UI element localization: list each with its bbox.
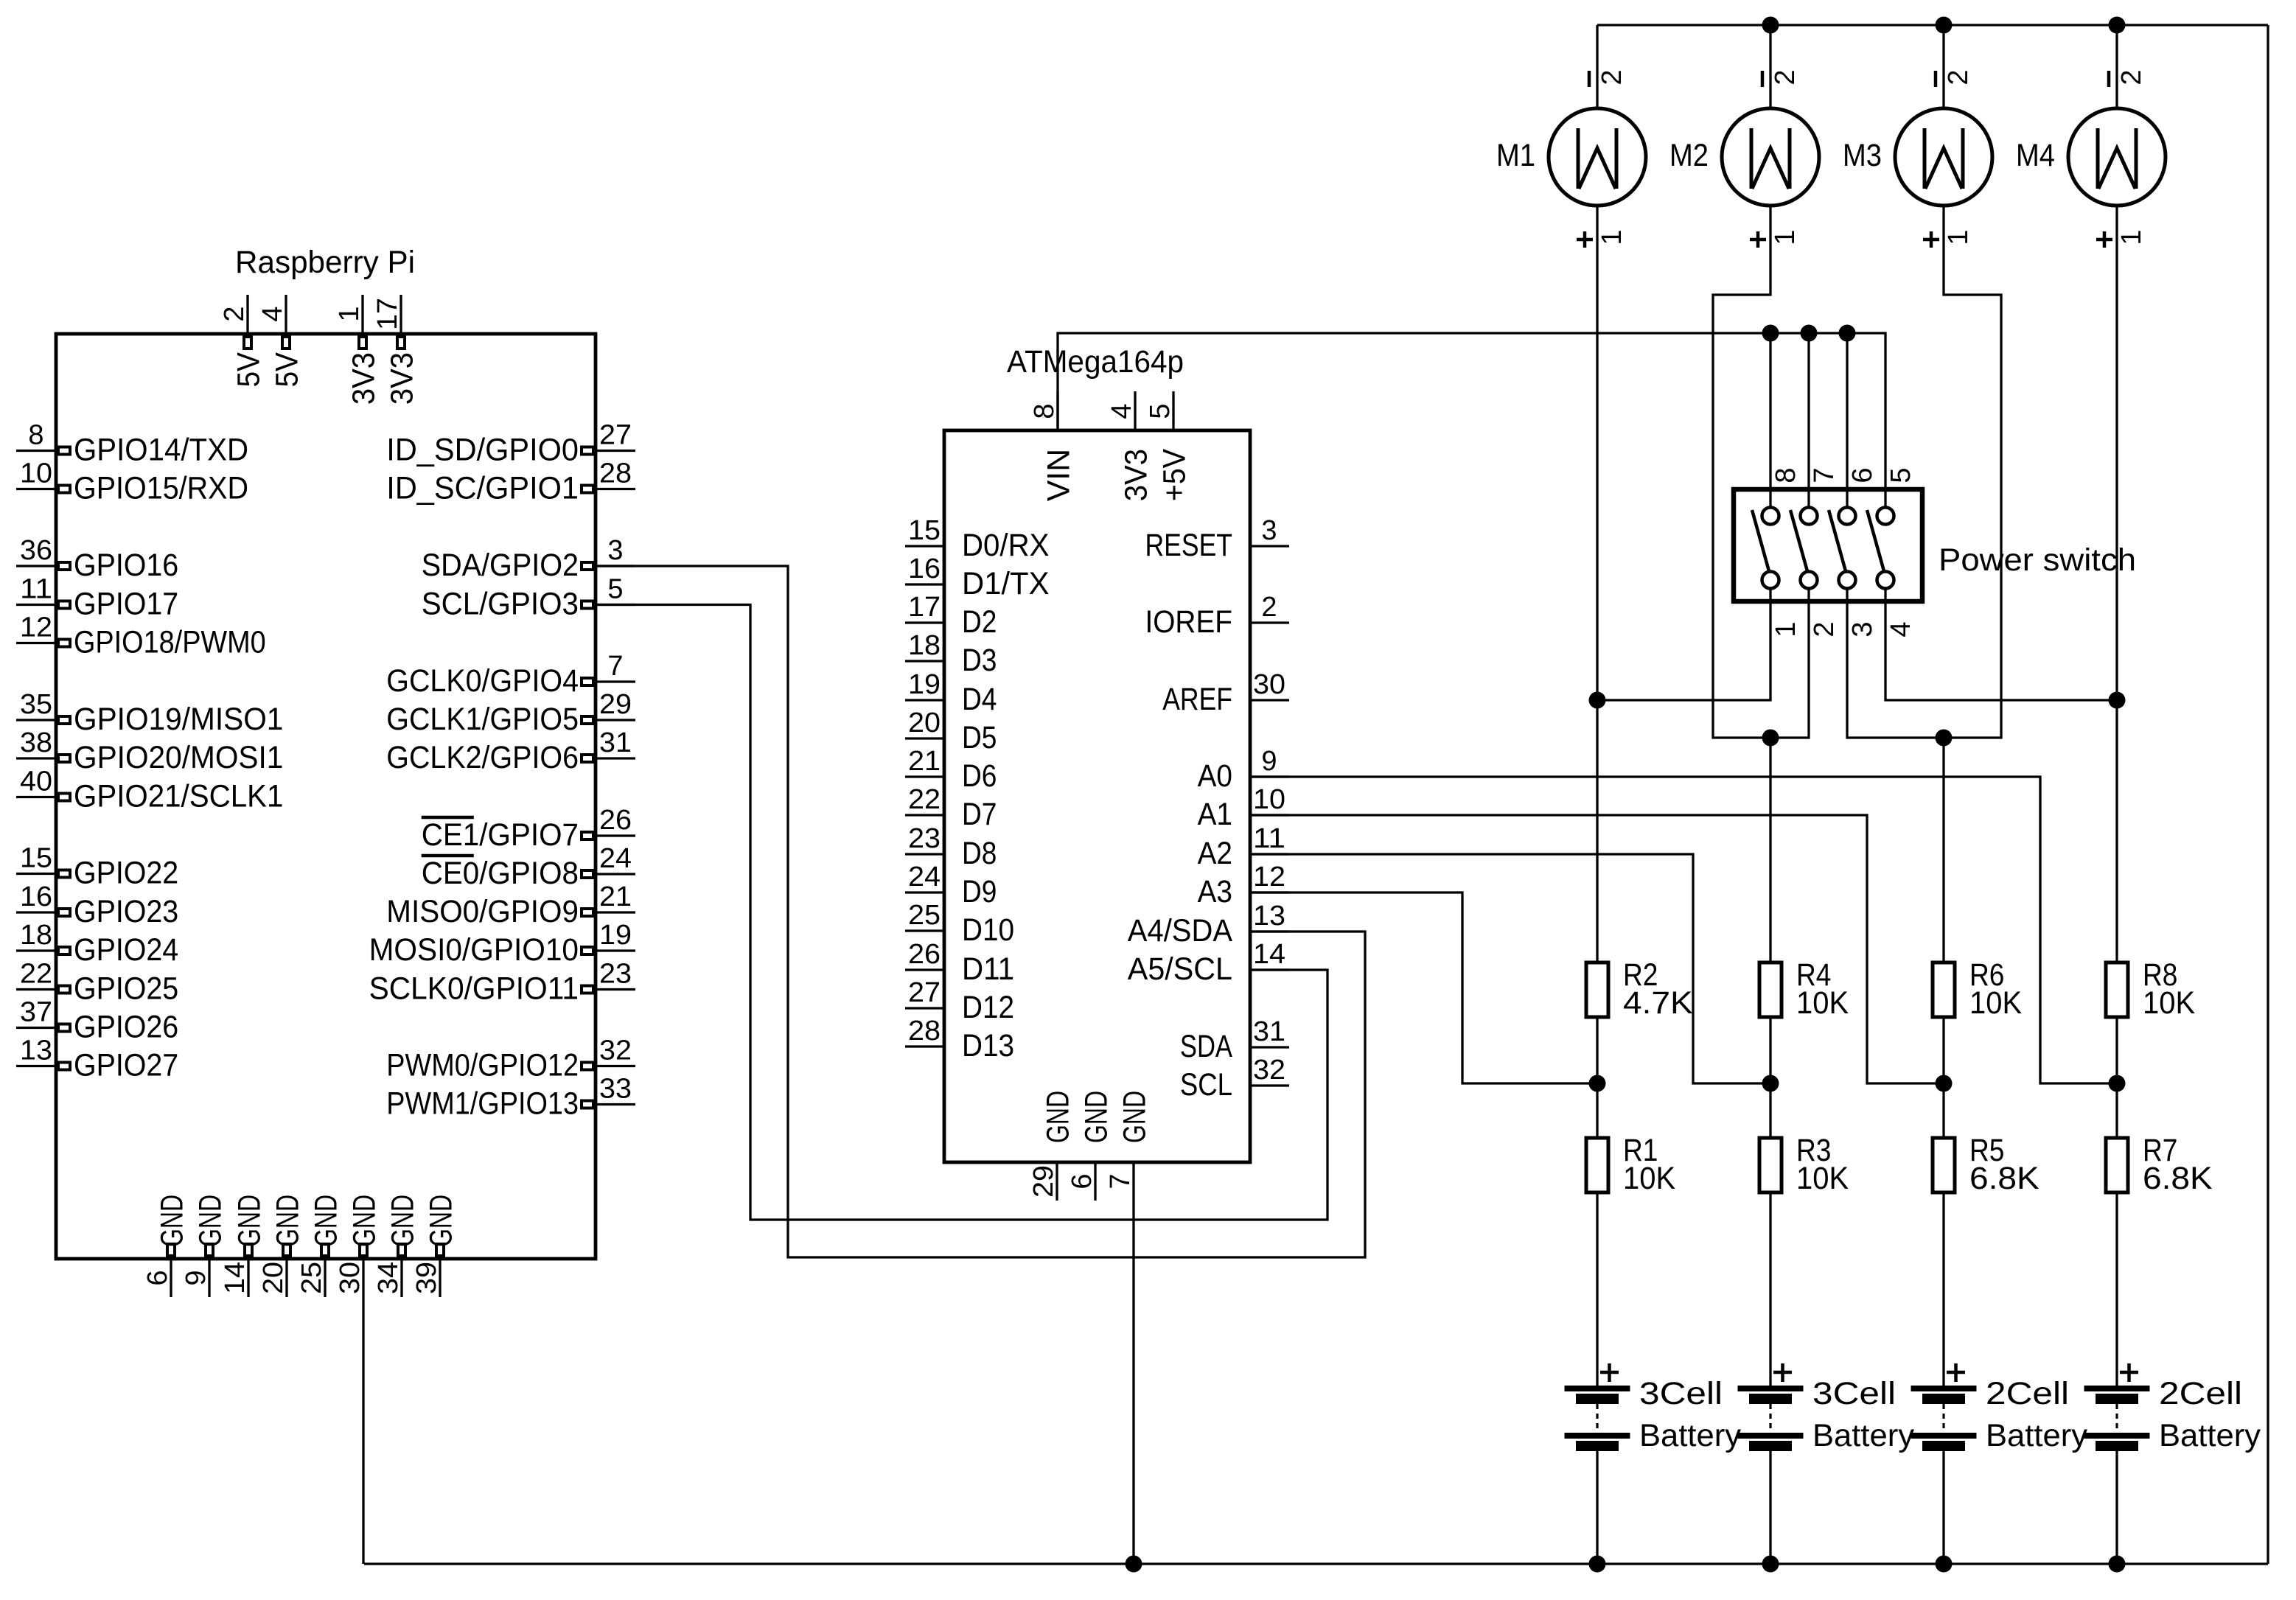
J1 pin 22 GPIO25: [16, 959, 178, 1007]
svg-text:M2: M2: [1669, 138, 1709, 173]
svg-text:D1/TX: D1/TX: [962, 566, 1050, 601]
svg-text:26: 26: [599, 805, 632, 836]
svg-text:Battery: Battery: [1986, 1418, 2087, 1453]
SW1 switch unit 2 (pins 2/7): [1790, 451, 1840, 640]
svg-text:19: 19: [908, 669, 941, 700]
U1 pin 18 D3: [905, 630, 997, 678]
svg-text:RESET: RESET: [1145, 528, 1233, 563]
svg-text:6: 6: [1847, 467, 1878, 483]
J1 pin 35 GPIO19/MISO1: [16, 689, 283, 737]
svg-text:M4: M4: [2016, 138, 2055, 173]
svg-text:D2: D2: [962, 604, 997, 640]
J1 pin 2 5V: [219, 295, 267, 387]
J1 pin 29 GCLK1/GPIO5: [386, 689, 635, 737]
svg-text:MISO0/GPIO9: MISO0/GPIO9: [386, 894, 579, 929]
svg-text:18: 18: [908, 630, 941, 661]
svg-text:3: 3: [1261, 515, 1277, 546]
ATMega164p U1: [905, 344, 1289, 1201]
junction at 2637,1001: [1936, 730, 1953, 747]
wire divider column: [1942, 1017, 1944, 1138]
svg-text:2: 2: [1809, 621, 1840, 637]
wire A2 to R4/R3 divider: [1250, 854, 1770, 1083]
svg-text:4.7K: 4.7K: [1623, 985, 1693, 1021]
svg-text:Raspberry Pi: Raspberry Pi: [235, 245, 415, 280]
svg-text:24: 24: [599, 843, 632, 874]
svg-text:MOSI0/GPIO10: MOSI0/GPIO10: [369, 932, 579, 968]
svg-text:ID_SC/GPIO1: ID_SC/GPIO1: [386, 471, 579, 506]
U1 pin 26 D11: [905, 939, 1014, 987]
svg-text:A2: A2: [1198, 836, 1232, 871]
resistor R6 10K: [1933, 957, 2022, 1021]
svg-text:M1: M1: [1496, 138, 1535, 173]
svg-text:12: 12: [1253, 862, 1285, 892]
J1 pin 9 GND: [181, 1195, 228, 1297]
wire junction to R4: [1769, 738, 1771, 963]
svg-text:D3: D3: [962, 643, 997, 678]
svg-text:SCL/GPIO3: SCL/GPIO3: [422, 587, 579, 622]
svg-text:SCL: SCL: [1180, 1067, 1232, 1103]
svg-text:38: 38: [20, 727, 52, 758]
svg-text:31: 31: [1253, 1016, 1285, 1047]
resistor R7 6.8K: [2106, 1133, 2213, 1196]
svg-text:GND: GND: [193, 1195, 228, 1247]
wire switch pin 2 to R4 junction: [1770, 640, 1809, 738]
svg-text:3: 3: [607, 535, 623, 566]
svg-text:8: 8: [28, 420, 43, 451]
J1 pin 11 GPIO17: [16, 574, 178, 622]
U1 body: [944, 430, 1250, 1162]
svg-text:5: 5: [1885, 467, 1916, 483]
svg-text:2: 2: [219, 306, 250, 321]
svg-text:D11: D11: [962, 951, 1014, 987]
svg-text:AREF: AREF: [1162, 682, 1232, 717]
battery BT3 2Cell: [1911, 1363, 2088, 1453]
svg-text:D0/RX: D0/RX: [962, 528, 1050, 563]
wire SCL (RPi GPIO3 to ATMega A5): [596, 605, 1327, 1220]
svg-text:31: 31: [599, 727, 632, 758]
wire battery to ground bus: [1769, 1451, 1771, 1564]
svg-text:1: 1: [334, 306, 365, 321]
wire right side vertical (motor - return): [2267, 25, 2269, 1564]
J1 pin 16 GPIO23: [16, 881, 178, 929]
U1 pin 2 IOREF: [1145, 592, 1290, 640]
svg-text:GPIO27: GPIO27: [74, 1048, 178, 1083]
U1 pin 10 A1: [1198, 784, 1289, 832]
svg-text:14: 14: [1253, 939, 1285, 970]
J1 pin 31 GCLK2/GPIO6: [386, 727, 635, 775]
svg-text:GPIO15/RXD: GPIO15/RXD: [74, 471, 248, 506]
svg-text:37: 37: [20, 997, 52, 1028]
svg-text:D5: D5: [962, 720, 997, 755]
motor M4: [2016, 69, 2166, 248]
svg-text:GCLK1/GPIO5: GCLK1/GPIO5: [386, 702, 579, 737]
svg-text:ATMega164p: ATMega164p: [1007, 344, 1184, 380]
svg-text:25: 25: [296, 1262, 327, 1294]
J1 pin 38 GPIO20/MOSI1: [16, 727, 283, 775]
U1 pin 17 D2: [905, 592, 997, 640]
junction at 2637,34: [1936, 17, 1953, 34]
wire switch top pin drop: [1769, 333, 1771, 451]
svg-text:5: 5: [1145, 403, 1176, 419]
J1 pin 18 GPIO24: [16, 920, 178, 968]
svg-text:M3: M3: [1843, 138, 1882, 173]
svg-text:10K: 10K: [2143, 985, 2195, 1021]
J1 pin 14 GND: [220, 1195, 268, 1297]
wire M2 + jog to junction: [1713, 206, 1770, 738]
U1 pin 14 A5/SCL: [1128, 939, 1289, 987]
wire ATMega GND (pin 7) to ground bus: [1132, 1201, 1134, 1564]
svg-text:29: 29: [599, 689, 632, 720]
svg-text:A1: A1: [1198, 797, 1232, 832]
svg-text:6.8K: 6.8K: [2143, 1161, 2213, 1196]
wire M1 + column to R2: [1596, 206, 1598, 963]
wire ATMega VIN to switch pins 8/7/6/5: [1058, 333, 1885, 451]
battery BT2 3Cell: [1738, 1363, 1915, 1453]
wire lower resistor to battery: [1769, 1192, 1771, 1386]
U1 pin 16 D1/TX: [905, 553, 1050, 601]
svg-text:CE1/GPIO7: CE1/GPIO7: [422, 817, 579, 853]
resistor R5 6.8K: [1933, 1133, 2039, 1196]
svg-text:32: 32: [1253, 1055, 1285, 1086]
svg-text:GCLK0/GPIO4: GCLK0/GPIO4: [386, 663, 579, 699]
svg-text:10: 10: [1253, 784, 1285, 815]
svg-text:28: 28: [908, 1016, 941, 1047]
Raspberry Pi connector J1: [16, 245, 635, 1297]
SW1 switch unit 1 (pins 1/8): [1752, 451, 1801, 640]
svg-text:2: 2: [2116, 69, 2147, 85]
svg-text:13: 13: [1253, 901, 1285, 932]
svg-text:39: 39: [411, 1262, 442, 1294]
U1 pin 7 GND: [1105, 1091, 1153, 1201]
resistor R3 10K: [1759, 1133, 1849, 1196]
J1 pin 8 GPIO14/TXD: [16, 420, 248, 468]
junction at 2167,2122: [1589, 1556, 1606, 1573]
U1 pin 13 A4/SDA: [1128, 901, 1289, 949]
svg-text:PWM1/GPIO13: PWM1/GPIO13: [386, 1086, 579, 1122]
svg-text:GND: GND: [232, 1195, 268, 1247]
U1 pin 5 +5V: [1145, 391, 1193, 501]
svg-text:2: 2: [1261, 592, 1277, 623]
svg-text:3V3: 3V3: [1119, 449, 1154, 501]
junction at 2167,950: [1589, 692, 1606, 709]
svg-text:IOREF: IOREF: [1145, 604, 1233, 640]
wire M3 + jog to junction: [1944, 206, 2001, 738]
U1 pin 19 D4: [905, 669, 997, 717]
wire A3 to R2/R1 divider: [1250, 892, 1597, 1083]
svg-text:14: 14: [220, 1262, 251, 1294]
J1 pin 36 GPIO16: [16, 535, 178, 583]
svg-text:GPIO17: GPIO17: [74, 587, 178, 622]
U1 pin 28 D13: [905, 1016, 1014, 1063]
svg-text:21: 21: [908, 746, 941, 777]
svg-text:1: 1: [1943, 229, 1974, 245]
svg-text:11: 11: [20, 574, 52, 605]
junction at 2402,34: [1762, 17, 1779, 34]
U1 pin 15 D0/RX: [905, 515, 1050, 563]
junction at 2167,1470: [1589, 1075, 1606, 1092]
svg-text:33: 33: [599, 1074, 632, 1105]
svg-text:1: 1: [2116, 229, 2147, 245]
svg-text:A5/SCL: A5/SCL: [1128, 951, 1232, 987]
wire divider column: [1596, 1017, 1598, 1138]
svg-text:GPIO16: GPIO16: [74, 548, 178, 583]
svg-text:7: 7: [1809, 467, 1840, 483]
junction at 2872,1470: [2109, 1075, 2126, 1092]
U1 pin 9 A0: [1198, 746, 1289, 794]
svg-text:24: 24: [908, 862, 941, 892]
U1 pin 23 D8: [905, 823, 997, 871]
svg-text:30: 30: [335, 1262, 366, 1294]
wire motor top lead: [1596, 25, 1598, 108]
svg-text:40: 40: [20, 766, 52, 797]
junction at 2506,452: [1839, 325, 1856, 342]
svg-text:+5V: +5V: [1157, 449, 1193, 501]
U1 pin 24 D9: [905, 862, 997, 909]
svg-text:28: 28: [599, 458, 632, 489]
J1 pin 3 SDA/GPIO2: [422, 535, 635, 583]
svg-text:16: 16: [20, 881, 52, 912]
battery BT1 3Cell: [1565, 1363, 1742, 1453]
svg-text:2: 2: [1943, 69, 1974, 85]
J1 pin 19 MOSI0/GPIO10: [369, 920, 635, 968]
svg-text:3Cell: 3Cell: [1639, 1376, 1723, 1411]
svg-text:22: 22: [20, 959, 52, 990]
svg-text:Battery: Battery: [1639, 1418, 1741, 1453]
svg-text:GPIO21/SCLK1: GPIO21/SCLK1: [74, 779, 283, 814]
wire junction to R6: [1942, 738, 1944, 963]
wire A1 to R6/R5 divider: [1250, 815, 1944, 1083]
J1 pin 25 GND: [296, 1195, 344, 1297]
svg-text:1: 1: [1770, 229, 1801, 245]
svg-text:4: 4: [257, 306, 288, 321]
svg-text:GCLK2/GPIO6: GCLK2/GPIO6: [386, 740, 579, 775]
svg-text:D8: D8: [962, 836, 997, 871]
svg-text:GPIO18/PWM0: GPIO18/PWM0: [74, 625, 266, 660]
svg-text:12: 12: [20, 612, 52, 643]
svg-text:D6: D6: [962, 758, 997, 794]
svg-text:GPIO14/TXD: GPIO14/TXD: [74, 433, 248, 468]
U1 pin 3 RESET: [1145, 515, 1290, 563]
motor M3: [1843, 69, 1992, 248]
svg-text:20: 20: [258, 1262, 289, 1294]
junction at 2402,1470: [1762, 1075, 1779, 1092]
wire ground bus (bottom): [364, 1562, 2268, 1565]
wire switch pin 3 to R6 junction: [1847, 640, 1944, 738]
svg-text:4: 4: [1885, 621, 1916, 637]
svg-text:4: 4: [1106, 403, 1137, 419]
wire motor top lead: [2115, 25, 2118, 108]
svg-text:SDA/GPIO2: SDA/GPIO2: [422, 548, 579, 583]
svg-text:9: 9: [1261, 746, 1277, 777]
J1 pin 39 GND: [411, 1195, 459, 1297]
J1 pin 20 GND: [258, 1195, 306, 1297]
wire SDA (RPi GPIO2 to ATMega A4): [596, 566, 1365, 1257]
svg-text:23: 23: [599, 959, 632, 990]
U1 pin 21 D6: [905, 746, 997, 794]
svg-text:10: 10: [20, 458, 52, 489]
J1 label Raspberry Pi: [235, 245, 415, 280]
svg-text:10K: 10K: [1969, 985, 2022, 1021]
svg-text:11: 11: [1253, 823, 1285, 854]
svg-text:17: 17: [908, 592, 941, 623]
svg-text:GND: GND: [1079, 1091, 1114, 1143]
U1 pin 8 VIN: [1029, 391, 1077, 501]
svg-text:SDA: SDA: [1180, 1029, 1232, 1064]
svg-text:29: 29: [1028, 1165, 1059, 1198]
motor M1: [1496, 69, 1646, 248]
svg-text:3V3: 3V3: [385, 352, 420, 405]
U1 pin 11 A2: [1198, 823, 1289, 871]
svg-text:1: 1: [1597, 229, 1627, 245]
junction at 2402,2122: [1762, 1556, 1779, 1573]
wire divider column: [2115, 1017, 2118, 1138]
junction at 2402,452: [1762, 325, 1779, 342]
J1 body: [56, 334, 596, 1259]
svg-text:2: 2: [1770, 69, 1801, 85]
svg-text:30: 30: [1253, 669, 1285, 700]
junction at 1538,2122: [1126, 1556, 1142, 1573]
J1 pin 34 GND: [373, 1195, 421, 1297]
svg-text:GND: GND: [1117, 1091, 1153, 1143]
svg-text:8: 8: [1029, 403, 1060, 419]
J1 pin 32 PWM0/GPIO12: [386, 1035, 635, 1083]
svg-text:34: 34: [373, 1262, 404, 1294]
wire lower resistor to battery: [1942, 1192, 1944, 1386]
J1 pin 17 3V3: [372, 295, 420, 405]
svg-text:15: 15: [20, 843, 52, 874]
svg-text:27: 27: [908, 977, 941, 1008]
svg-text:GPIO26: GPIO26: [74, 1010, 178, 1045]
svg-text:D10: D10: [962, 912, 1014, 948]
SW1 label Power switch: [1939, 542, 2136, 578]
svg-text:8: 8: [1770, 467, 1801, 483]
svg-text:D12: D12: [962, 990, 1014, 1025]
U1 pin 25 D10: [905, 900, 1014, 948]
svg-text:D9: D9: [962, 874, 997, 909]
svg-text:D13: D13: [962, 1028, 1014, 1063]
wire battery to ground bus: [1596, 1451, 1598, 1564]
svg-text:6: 6: [1067, 1173, 1098, 1189]
J1 pin 13 GPIO27: [16, 1035, 178, 1083]
svg-text:GPIO22: GPIO22: [74, 856, 178, 891]
svg-text:26: 26: [908, 939, 941, 970]
wire battery to ground bus: [1942, 1451, 1944, 1564]
svg-text:GND: GND: [347, 1195, 383, 1247]
U1 pin 32 SCL: [1180, 1055, 1289, 1103]
svg-text:1: 1: [1770, 621, 1801, 637]
SW1 switch unit 4 (pins 4/5): [1867, 451, 1916, 640]
J1 pin 26 CE1/GPIO7: [422, 805, 635, 853]
junction at 2872,2122: [2109, 1556, 2126, 1573]
junction at 2637,2122: [1936, 1556, 1953, 1573]
J1 pin 12 GPIO18/PWM0: [16, 612, 266, 660]
U1 pin 30 AREF: [1162, 669, 1289, 717]
svg-text:ID_SD/GPIO0: ID_SD/GPIO0: [386, 433, 579, 468]
wire switch top pin drop: [1807, 333, 1810, 451]
U1 pin 4 3V3: [1106, 391, 1154, 501]
svg-text:2: 2: [1597, 69, 1627, 85]
battery BT4 2Cell: [2084, 1363, 2261, 1453]
wire lower resistor to battery: [1596, 1192, 1598, 1386]
svg-text:36: 36: [20, 535, 52, 566]
svg-text:2Cell: 2Cell: [2159, 1376, 2242, 1411]
wire switch pin 4 to M4/R8 column: [1885, 640, 2117, 700]
svg-text:A4/SDA: A4/SDA: [1128, 913, 1232, 949]
svg-text:13: 13: [20, 1035, 52, 1066]
svg-text:3Cell: 3Cell: [1812, 1376, 1896, 1411]
svg-text:16: 16: [908, 553, 941, 584]
U1 pin 22 D7: [905, 784, 997, 832]
U1 pin 20 D5: [905, 708, 997, 755]
svg-text:GND: GND: [385, 1195, 421, 1247]
junction at 2402,1001: [1762, 730, 1779, 747]
U1 pin 29 GND: [1028, 1091, 1076, 1201]
svg-text:6: 6: [142, 1270, 173, 1285]
J1 pin 1 3V3: [334, 295, 382, 405]
svg-text:35: 35: [20, 689, 52, 720]
svg-text:10K: 10K: [1796, 985, 1849, 1021]
svg-text:18: 18: [20, 920, 52, 951]
J1 pin 7 GCLK0/GPIO4: [386, 651, 635, 699]
wire motor top lead: [1769, 25, 1771, 108]
svg-text:2Cell: 2Cell: [1986, 1376, 2069, 1411]
svg-text:A0: A0: [1198, 758, 1232, 794]
svg-text:Battery: Battery: [2159, 1418, 2261, 1453]
svg-text:CE0/GPIO8: CE0/GPIO8: [422, 856, 579, 891]
svg-text:PWM0/GPIO12: PWM0/GPIO12: [386, 1048, 579, 1083]
wire M4 + column to R8: [2115, 206, 2118, 963]
junction at 2872,950: [2109, 692, 2126, 709]
svg-text:GPIO23: GPIO23: [74, 894, 178, 929]
svg-text:GPIO19/MISO1: GPIO19/MISO1: [74, 702, 283, 737]
svg-text:GPIO20/MOSI1: GPIO20/MOSI1: [74, 740, 283, 775]
J1 pin 15 GPIO22: [16, 843, 178, 891]
wire lower resistor to battery: [2115, 1192, 2118, 1386]
U1 pin 6 GND: [1067, 1091, 1114, 1201]
svg-text:VIN: VIN: [1041, 449, 1077, 501]
svg-text:27: 27: [599, 420, 632, 451]
svg-text:A3: A3: [1198, 874, 1232, 909]
U1 pin 27 D12: [905, 977, 1014, 1025]
U1 label ATMega164p: [1007, 344, 1184, 380]
svg-text:17: 17: [372, 298, 403, 330]
U1 pin 31 SDA: [1180, 1016, 1289, 1064]
J1 pin 4 5V: [257, 295, 305, 387]
svg-text:21: 21: [599, 881, 632, 912]
J1 pin 30 GND: [335, 1195, 383, 1297]
power switch SW1: [1734, 451, 2136, 640]
svg-text:3V3: 3V3: [346, 352, 382, 405]
J1 pin 23 SCLK0/GPIO11: [369, 959, 635, 1007]
svg-text:GND: GND: [1041, 1091, 1076, 1143]
J1 pin 10 GPIO15/RXD: [16, 458, 248, 506]
svg-text:Power switch: Power switch: [1939, 542, 2136, 578]
SW1 switch unit 3 (pins 3/6): [1829, 451, 1878, 640]
resistor R1 10K: [1586, 1133, 1675, 1196]
resistor R4 10K: [1759, 957, 1849, 1021]
svg-text:D4: D4: [962, 682, 997, 717]
svg-text:5V: 5V: [270, 352, 305, 388]
J1 pin 33 PWM1/GPIO13: [386, 1074, 635, 1122]
svg-text:GND: GND: [424, 1195, 459, 1247]
svg-text:Battery: Battery: [1812, 1418, 1914, 1453]
J1 pin 40 GPIO21/SCLK1: [16, 766, 283, 814]
J1 pin 27 ID_SD/GPIO0: [386, 420, 635, 468]
SW1 body: [1734, 489, 1922, 601]
wire divider column: [1769, 1017, 1771, 1138]
junction at 2454,452: [1801, 325, 1818, 342]
svg-text:9: 9: [181, 1270, 212, 1285]
